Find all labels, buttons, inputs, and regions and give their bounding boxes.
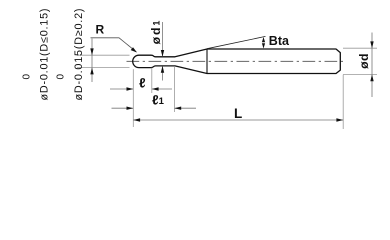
extension line at ball/neck step <box>151 68 153 93</box>
d dimension line with arrows <box>371 33 373 98</box>
svg-text:0: 0 <box>56 74 67 80</box>
svg-text:øD-0.01(D≤0.15): øD-0.01(D≤0.15) <box>39 9 51 101</box>
d dimension extension lines (shank) <box>343 47 377 49</box>
svg-text:ød: ød <box>357 53 371 69</box>
D dimension line with arrows <box>91 39 93 83</box>
extension line at neck end <box>173 67 175 112</box>
R leader line <box>91 38 137 52</box>
back taper reference thin line <box>207 36 266 48</box>
d1 dimension line upper with arrow <box>162 22 164 56</box>
l1 dimension (neck length) <box>112 107 133 109</box>
svg-text:0: 0 <box>22 74 33 80</box>
L dimension (overall length) <box>133 119 343 121</box>
tool body outline (ball nose, neck, taper, shank) <box>133 49 341 74</box>
R leader arrowhead <box>131 47 137 52</box>
extension line at tool tip <box>132 69 134 127</box>
d1 dimension line lower with arrow <box>162 66 164 80</box>
svg-text:ℓ: ℓ <box>139 75 146 90</box>
D dimension extension lines (ball tangents) <box>77 54 130 56</box>
svg-text:L: L <box>234 106 242 121</box>
extension line at shank end <box>342 75 344 129</box>
taper/shank junction line <box>206 49 208 74</box>
l dimension (flute length) <box>110 88 133 90</box>
svg-text:øD-0.015(D≥0.2): øD-0.015(D≥0.2) <box>73 8 85 100</box>
centerline <box>127 60 346 62</box>
svg-text:R: R <box>96 23 105 37</box>
svg-text:Bta: Bta <box>269 34 290 48</box>
Bta angle arrows <box>262 37 265 42</box>
svg-text:ød1: ød1 <box>149 19 163 45</box>
